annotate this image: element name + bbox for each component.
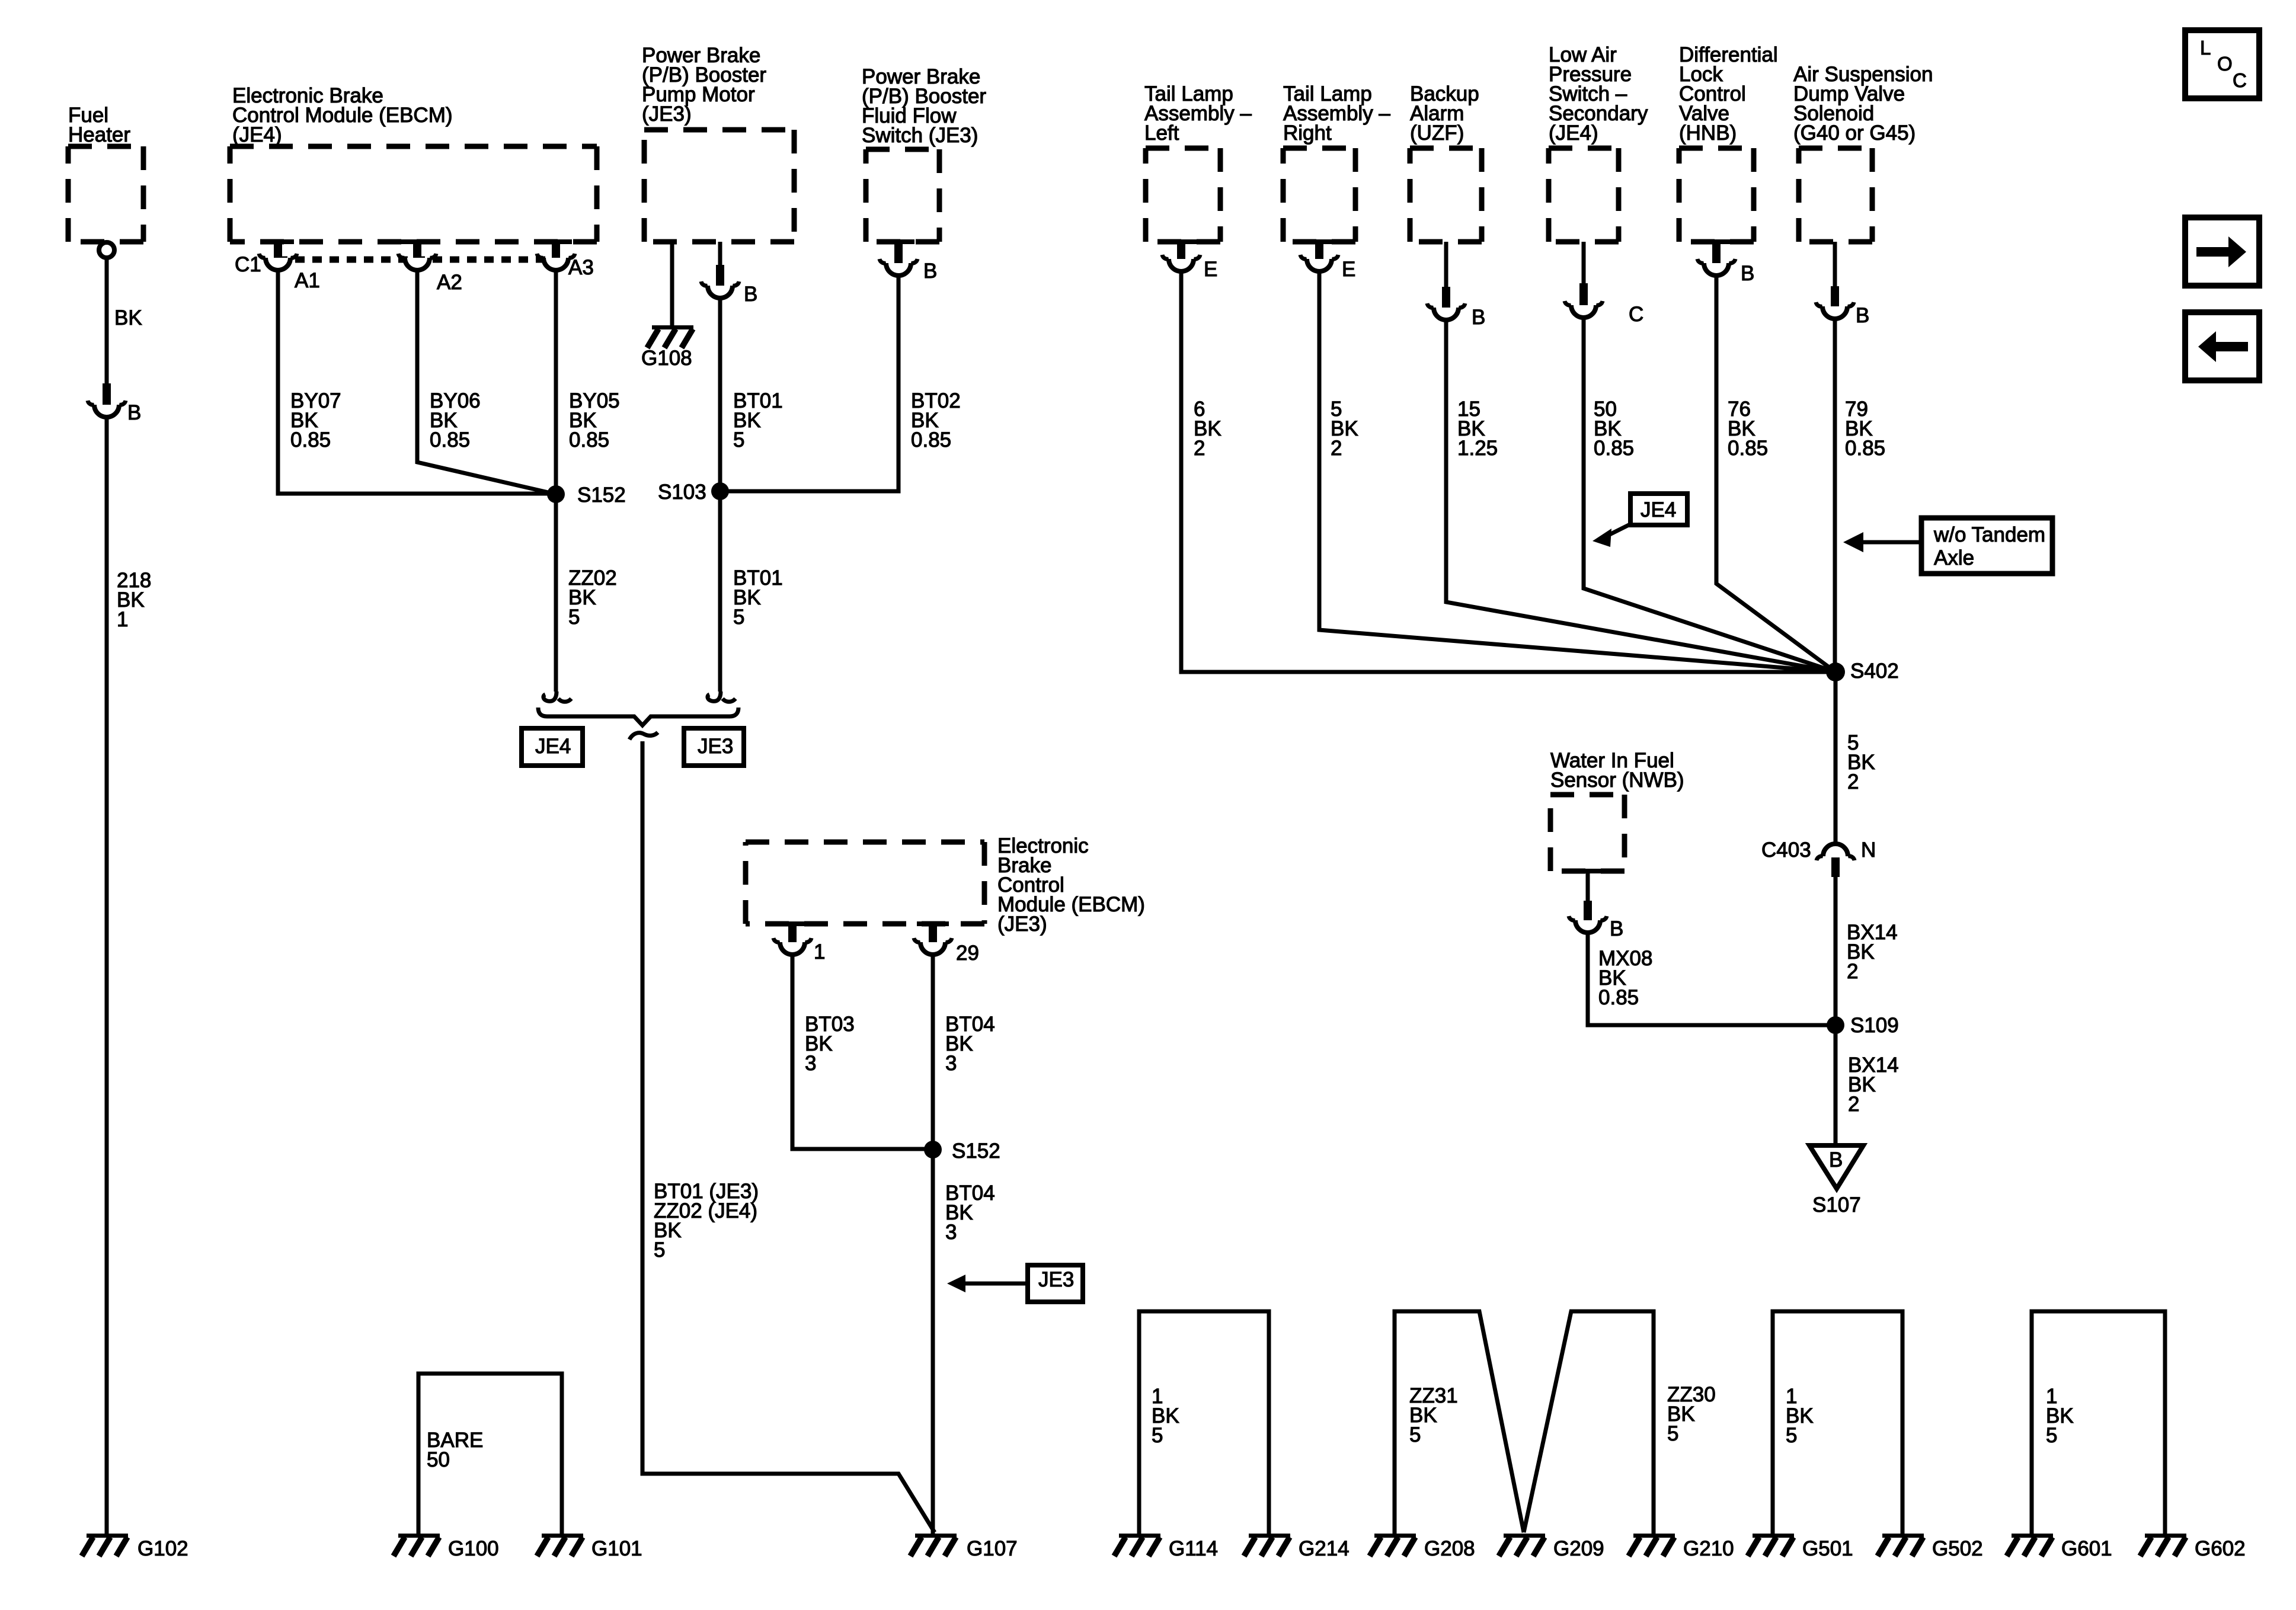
P/B booster pump motor component box — [644, 130, 794, 242]
fuel heater label — [68, 104, 130, 146]
svg-text:A1: A1 — [295, 269, 320, 292]
connector B cup (diff lock) — [1704, 263, 1729, 276]
EBCM JE3 label — [997, 834, 1145, 936]
pin 29 cup — [920, 942, 945, 955]
svg-text:(JE4): (JE4) — [232, 123, 282, 146]
pin 1 stub — [788, 921, 797, 942]
wire label ZZ31 BK 5 — [1409, 1384, 1458, 1446]
pin E cup (tail right) — [1307, 259, 1332, 271]
pin E cup (tail left) — [1169, 259, 1194, 271]
air suspension dump valve solenoid (G40 or G45) label — [1793, 63, 1933, 145]
svg-text:S152: S152 — [577, 484, 626, 507]
svg-text:(JE3): (JE3) — [997, 913, 1047, 936]
svg-text:G108: G108 — [641, 347, 692, 370]
connector C1 dotted line — [278, 257, 557, 263]
connector B cup (fluid flow) — [886, 263, 911, 276]
svg-text:B: B — [1472, 306, 1485, 329]
ground G214 — [1249, 1534, 1290, 1538]
svg-text:BK: BK — [114, 306, 142, 329]
tail lamp assembly left component box — [1146, 148, 1220, 242]
svg-text:0.85: 0.85 — [569, 428, 609, 452]
wire BT01 down through S103 — [718, 298, 722, 692]
svg-text:E: E — [1342, 258, 1355, 281]
connector C stub (low air) — [1579, 283, 1588, 305]
svg-text:2: 2 — [1194, 437, 1205, 460]
svg-text:5: 5 — [1152, 1424, 1163, 1447]
wire BT03 from pin 1 to S152 — [792, 955, 933, 1149]
splice S103 — [711, 482, 729, 500]
low air pressure switch secondary (JE4) component box — [1549, 148, 1619, 242]
svg-text:5: 5 — [1786, 1424, 1797, 1447]
wire air suspension pin — [1833, 242, 1837, 286]
wire BY06 from A2 to S152 — [417, 270, 556, 494]
wire label BT04 BK 3 — [945, 1013, 995, 1075]
connector C403 stub — [1831, 857, 1840, 877]
wire label BY07 BK 0.85 — [290, 389, 341, 452]
svg-text:JE4: JE4 — [1641, 498, 1676, 521]
wire BARE 50 loop G100-G101 — [418, 1374, 562, 1534]
wire 1 BK 5 loop G114-G214 — [1139, 1311, 1269, 1534]
tag box JE3 — [684, 728, 744, 766]
wire label 5 BK 2 (below S402) — [1847, 731, 1875, 793]
svg-text:G208: G208 — [1424, 1537, 1475, 1560]
wire label 1 BK 5 (G501) — [1786, 1385, 1814, 1447]
svg-text:(UZF): (UZF) — [1410, 121, 1464, 145]
svg-text:3: 3 — [805, 1052, 816, 1075]
svg-text:Left: Left — [1144, 121, 1179, 145]
differential lock control valve (HNB) label — [1679, 43, 1778, 145]
svg-text:G210: G210 — [1683, 1537, 1734, 1560]
svg-text:B: B — [1741, 262, 1754, 285]
wire MX08 BK 0.85 to S109 — [1588, 933, 1835, 1025]
wire BY07 from A1 to S152 — [278, 270, 556, 494]
svg-text:O: O — [2217, 53, 2233, 75]
svg-text:3: 3 — [945, 1221, 957, 1244]
svg-text:Switch (JE3): Switch (JE3) — [862, 124, 978, 147]
pin A3 cup — [543, 258, 568, 270]
wire combined BT01/ZZ02 down to G107 — [642, 741, 935, 1532]
svg-text:50: 50 — [427, 1448, 450, 1471]
svg-text:L: L — [2200, 37, 2211, 59]
fluid flow switch label — [862, 65, 986, 147]
wire label BT02 BK 0.85 — [911, 389, 961, 452]
tail lamp assembly right label — [1283, 82, 1390, 145]
svg-text:B: B — [1829, 1148, 1843, 1172]
wire label BT03 BK 3 — [805, 1013, 855, 1075]
svg-text:S152: S152 — [952, 1140, 1000, 1163]
wire label 15 BK 1.25 — [1457, 398, 1498, 460]
wire BY05/ZZ02 from A3 through S152 — [554, 270, 558, 692]
LOC legend box — [2185, 30, 2259, 98]
svg-text:2: 2 — [1331, 437, 1342, 460]
connector B pin stub — [103, 383, 111, 405]
svg-text:G114: G114 — [1169, 1537, 1218, 1560]
svg-text:1.25: 1.25 — [1457, 437, 1498, 460]
svg-text:(HNB): (HNB) — [1679, 121, 1737, 145]
svg-text:B: B — [1856, 304, 1869, 327]
svg-text:G501: G501 — [1802, 1537, 1853, 1560]
svg-text:G602: G602 — [2195, 1537, 2246, 1560]
connector B cup (air susp) — [1822, 306, 1847, 319]
svg-text:B: B — [127, 401, 141, 424]
svg-text:G101: G101 — [591, 1537, 642, 1560]
svg-text:S103: S103 — [658, 481, 706, 504]
svg-text:2: 2 — [1847, 960, 1858, 983]
pin A1 cup — [266, 258, 290, 270]
pigtail BT01 end — [708, 692, 721, 701]
wire 218 BK 1 down to G102 — [105, 417, 109, 1534]
wire 15 BK 1.25 to S402 — [1446, 320, 1835, 672]
wire label 5 BK 2 — [1331, 398, 1358, 460]
svg-text:G209: G209 — [1553, 1537, 1604, 1560]
wire 6 BK 2 to S402 — [1181, 271, 1835, 672]
connector B pin stub (pump motor) — [716, 265, 724, 286]
svg-text:5: 5 — [733, 428, 744, 452]
ground G209 — [1504, 1534, 1545, 1538]
backup alarm (UZF) label — [1410, 82, 1479, 145]
svg-text:A2: A2 — [437, 271, 462, 294]
connector B stub (WIF) — [1584, 901, 1592, 920]
svg-text:E: E — [1204, 258, 1217, 281]
pin E stub (tail right) — [1315, 239, 1323, 259]
svg-text:Axle: Axle — [1934, 546, 1974, 569]
pin A1 stub — [274, 239, 282, 258]
wire label 76 BK 0.85 — [1728, 398, 1768, 460]
splice S152 — [547, 485, 565, 503]
fuel heater terminal circle — [99, 242, 114, 258]
ground G102 — [87, 1534, 128, 1538]
svg-text:Heater: Heater — [68, 123, 130, 146]
wire WIF pin — [1586, 871, 1590, 901]
ground G502 — [1882, 1534, 1924, 1538]
wire pump motor to G108 — [670, 242, 674, 325]
wire label BX14 BK 2 (upper) — [1847, 921, 1898, 983]
wire BX14 BK 2 to S109 — [1834, 877, 1838, 1025]
svg-text:2: 2 — [1848, 1093, 1859, 1116]
tail lamp assembly right component box — [1283, 148, 1355, 242]
svg-text:5: 5 — [1667, 1422, 1678, 1445]
connector B cup (pump motor) — [708, 286, 733, 298]
pigtail ZZ02 end — [543, 692, 557, 701]
ground G100 — [398, 1534, 440, 1538]
svg-text:B: B — [744, 283, 757, 306]
svg-text:S107: S107 — [1812, 1193, 1861, 1217]
wire 1 BK 5 loop G601-G602 — [2032, 1311, 2165, 1534]
wire label BT01 (JE3) ZZ02 (JE4) BK 5 — [654, 1180, 759, 1262]
wire label BARE 50 — [427, 1429, 483, 1471]
connector B stub (backup) — [1442, 287, 1450, 308]
svg-text:G214: G214 — [1299, 1537, 1350, 1560]
svg-text:3: 3 — [945, 1052, 957, 1075]
wire label 6 BK 2 — [1194, 398, 1221, 460]
wire 76 BK 0.85 to S402 — [1716, 276, 1835, 672]
wire label BY05 BK 0.85 — [569, 389, 620, 452]
wire label 218 BK 1 — [117, 569, 151, 631]
svg-text:1: 1 — [814, 940, 825, 964]
ground G208 — [1374, 1534, 1416, 1538]
ground G601 — [2012, 1534, 2053, 1538]
svg-text:5: 5 — [568, 606, 580, 629]
svg-text:JE4: JE4 — [535, 735, 571, 758]
connector B cup — [94, 405, 119, 417]
right arrow legend box — [2185, 217, 2259, 286]
svg-text:C403: C403 — [1761, 838, 1811, 862]
air suspension dump valve solenoid (G40 or G45) component box — [1799, 148, 1872, 242]
connector B cup (backup) — [1434, 308, 1459, 320]
ground G602 — [2145, 1534, 2186, 1538]
ground G108 — [652, 325, 693, 329]
fuel heater component box — [68, 146, 143, 242]
svg-text:0.85: 0.85 — [911, 428, 951, 452]
wire label BT01 BK 5 lower — [733, 566, 783, 629]
harness brace — [538, 708, 738, 725]
wire label 79 BK 0.85 — [1845, 398, 1885, 460]
EBCM JE4 label — [232, 84, 453, 146]
pump motor label — [642, 44, 766, 126]
svg-text:0.85: 0.85 — [1728, 437, 1768, 460]
svg-text:JE3: JE3 — [1038, 1268, 1074, 1291]
connector B stub (diff lock) — [1712, 239, 1721, 263]
connector B cup (WIF) — [1575, 920, 1600, 933]
pigtail below brace — [629, 732, 658, 740]
EBCM JE4 component box — [230, 146, 597, 242]
wire label ZZ30 BK 5 — [1667, 1383, 1716, 1445]
tag w/o Tandem Axle with arrow — [1921, 518, 2052, 574]
pin 1 cup — [780, 942, 805, 955]
svg-text:G601: G601 — [2061, 1537, 2112, 1560]
svg-text:G100: G100 — [448, 1537, 499, 1560]
wire BT02 to S103 — [720, 276, 898, 491]
svg-text:(G40 or G45): (G40 or G45) — [1793, 121, 1916, 145]
pin 29 stub — [929, 921, 937, 942]
connector B stub (air susp) — [1831, 286, 1839, 306]
svg-text:C: C — [1629, 303, 1643, 326]
wire 5 BK 2 from S402 to C403 — [1834, 672, 1838, 844]
pin A3 stub — [552, 239, 560, 258]
wire 1 BK 5 loop G501-G502 — [1773, 1311, 1902, 1534]
ground G501 — [1753, 1534, 1794, 1538]
P/B booster fluid flow switch component box — [866, 149, 939, 242]
wire label 1 BK 5 (G114) — [1152, 1385, 1179, 1447]
wire backup alarm pin — [1444, 242, 1448, 287]
splice S109 — [1827, 1016, 1844, 1034]
differential lock control valve (HNB) component box — [1679, 148, 1754, 242]
svg-text:S109: S109 — [1850, 1014, 1899, 1037]
svg-text:S402: S402 — [1850, 660, 1899, 683]
svg-text:5: 5 — [733, 606, 744, 629]
svg-text:0.85: 0.85 — [430, 428, 470, 452]
wire label 50 BK 0.85 — [1594, 398, 1634, 460]
svg-text:5: 5 — [1409, 1423, 1421, 1446]
svg-text:N: N — [1861, 838, 1876, 862]
svg-text:0.85: 0.85 — [1594, 437, 1634, 460]
tail lamp assembly left label — [1144, 82, 1252, 145]
svg-text:G102: G102 — [137, 1537, 188, 1560]
svg-text:C1: C1 — [235, 253, 261, 276]
wire pump motor pin B — [718, 242, 722, 265]
tag box JE4 — [522, 728, 583, 766]
splice S152 (lower) — [924, 1141, 942, 1158]
connector C cup (low air) — [1571, 305, 1596, 318]
svg-text:0.85: 0.85 — [1598, 986, 1639, 1009]
wire label BT01 BK 5 — [733, 389, 783, 452]
water in fuel sensor component box — [1550, 795, 1625, 871]
svg-text:G107: G107 — [967, 1537, 1018, 1560]
svg-text:2: 2 — [1847, 770, 1859, 793]
svg-text:29: 29 — [956, 942, 979, 965]
wire BX14 BK 2 to S107 — [1834, 1025, 1838, 1145]
pin A2 cup — [405, 258, 430, 270]
ground G101 — [542, 1534, 583, 1538]
splice S107 triangle B — [1809, 1145, 1863, 1189]
wire label MX08 BK 0.85 — [1598, 947, 1652, 1009]
svg-text:0.85: 0.85 — [290, 428, 331, 452]
wire label ZZ02 BK 5 — [568, 566, 617, 629]
tag JE3 with arrow — [1028, 1265, 1083, 1302]
svg-text:1: 1 — [117, 608, 128, 631]
wire label 1 BK 5 (G601) — [2046, 1385, 2074, 1447]
wire ZZ30 BK 5 loop G209-G210 — [1524, 1311, 1654, 1534]
svg-text:(JE3): (JE3) — [642, 103, 692, 126]
svg-text:w/o Tandem: w/o Tandem — [1933, 523, 2045, 546]
wire label BT04 BK 3 lower — [945, 1182, 995, 1244]
connector C403 dome — [1823, 844, 1848, 856]
EBCM JE3 component box — [746, 842, 984, 924]
wire 5 BK 2 to S402 — [1319, 271, 1835, 672]
svg-text:A3: A3 — [568, 256, 594, 279]
wire label BY06 BK 0.85 — [430, 389, 481, 452]
svg-text:Sensor (NWB): Sensor (NWB) — [1550, 769, 1684, 792]
pin E stub (tail left) — [1177, 239, 1185, 259]
wire fuel heater down to connector B — [105, 258, 109, 383]
svg-text:0.85: 0.85 — [1845, 437, 1885, 460]
splice S402 — [1826, 662, 1845, 681]
svg-text:Right: Right — [1283, 121, 1332, 145]
wire BT04 from pin 29 to G107 — [931, 955, 935, 1534]
svg-text:5: 5 — [2046, 1424, 2057, 1447]
wire label BX14 BK 2 (lower) — [1848, 1054, 1899, 1116]
wire low air pin — [1582, 242, 1586, 283]
svg-text:B: B — [923, 260, 937, 283]
ground G210 — [1633, 1534, 1675, 1538]
low air pressure switch secondary (JE4) label — [1549, 43, 1648, 145]
svg-text:(JE4): (JE4) — [1549, 121, 1598, 145]
svg-text:C: C — [2233, 69, 2247, 91]
ground G107 — [915, 1534, 957, 1538]
tag JE4 with arrow — [1630, 494, 1687, 525]
svg-text:JE3: JE3 — [698, 735, 733, 758]
wire 79 BK 0.85 to S402 — [1833, 319, 1837, 672]
wire ZZ31 BK 5 loop G208-G209 — [1395, 1311, 1524, 1534]
svg-text:B: B — [1610, 917, 1623, 940]
svg-text:G502: G502 — [1932, 1537, 1983, 1560]
left arrow legend box — [2185, 312, 2259, 380]
connector B pin stub (fluid flow) — [894, 239, 903, 263]
ground G114 — [1119, 1534, 1160, 1538]
wire 50 BK 0.85 to S402 — [1584, 318, 1835, 672]
pin A2 stub — [413, 239, 421, 258]
svg-text:5: 5 — [654, 1238, 665, 1262]
water in fuel sensor label — [1550, 749, 1684, 792]
backup alarm (UZF) component box — [1410, 148, 1482, 242]
